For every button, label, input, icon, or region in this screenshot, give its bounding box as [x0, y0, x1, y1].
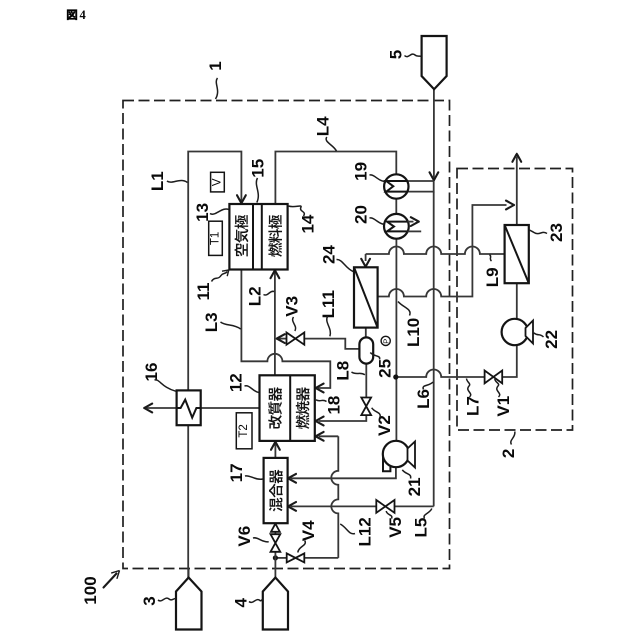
wire L8 (capsule 25 down through valve V2 into combustor): [316, 364, 367, 426]
air electrode 13 label text 空気極: [235, 243, 248, 256]
label L3: [202, 312, 241, 332]
pump/blower 21: [383, 441, 415, 472]
thermometer T1 box: [209, 221, 223, 255]
svg-text:100: 100: [81, 576, 100, 604]
svg-text:L7: L7: [464, 396, 483, 416]
label V6: [235, 526, 269, 547]
wire L5 (L6 corner through valve V5 into mixer): [288, 502, 434, 511]
svg-text:12: 12: [227, 373, 246, 392]
label L8: [334, 361, 365, 381]
svg-text:2: 2: [499, 449, 518, 458]
svg-text:L11: L11: [319, 290, 338, 318]
label 15: [248, 159, 267, 203]
wire tank3 riser crossing: [188, 569, 190, 578]
svg-text:L1: L1: [148, 171, 167, 191]
condenser 19: [384, 174, 408, 198]
title 図4: [67, 10, 77, 20]
junction node dot above tank 4: [273, 555, 278, 560]
heat exchanger 24: [354, 267, 378, 327]
svg-text:14: 14: [299, 214, 318, 233]
wire L12 (valve V4 bypass up into combustor) with hops (bulge left): [316, 432, 339, 558]
label 24: [320, 245, 354, 272]
junction node dot on L10: [393, 374, 398, 379]
wire between 19 and 20: [395, 199, 397, 214]
fuel cell 11 outer box: [229, 204, 287, 270]
svg-text:L10: L10: [404, 318, 423, 347]
label L6: [414, 382, 433, 409]
label L7: [464, 379, 483, 417]
svg-text:23: 23: [547, 223, 566, 242]
wire from water tank 5 down: [430, 89, 439, 180]
svg-text:L2: L2: [245, 286, 264, 306]
svg-text:V6: V6: [235, 526, 254, 547]
valve V2: [361, 398, 371, 416]
svg-text:24: 24: [320, 245, 339, 264]
svg-text:1: 1: [206, 61, 225, 70]
svg-text:16: 16: [142, 363, 161, 382]
thermometer T2 box: [236, 413, 252, 449]
label 5: [387, 50, 422, 59]
wire: combustor exhaust line y=254 (to heat exchanger 23) with hops: [361, 247, 504, 267]
mixer text 混合器: [269, 498, 282, 512]
water/fuel tank 4: [263, 578, 288, 630]
label 23: [530, 223, 567, 242]
wire L3 (cathode offgas to combustor): [241, 270, 330, 393]
valve V4: [287, 553, 305, 562]
label L1: [148, 171, 187, 191]
label L2: [245, 286, 274, 306]
mixer 17 box: [264, 458, 288, 523]
svg-text:V3: V3: [282, 296, 301, 317]
svg-text:V: V: [212, 178, 224, 186]
svg-text:4: 4: [231, 598, 250, 608]
svg-text:19: 19: [352, 162, 371, 181]
label 100 with arrow: [81, 571, 120, 605]
wire L6 (water down the right side into L5): [433, 192, 435, 507]
svg-text:L6: L6: [414, 389, 433, 409]
svg-text:T1: T1: [210, 232, 222, 245]
label 2: [499, 432, 518, 459]
svg-text:13: 13: [193, 203, 212, 222]
label L12: [340, 517, 374, 546]
wire HX16 exhaust out (left arrow): [144, 404, 259, 413]
wire tank4 to junction: [274, 558, 276, 578]
svg-text:V1: V1: [494, 396, 513, 417]
wire L7/V1 (junction dot to pump 22 via valve V1) with hop over L6: [396, 345, 517, 377]
label V1: [494, 379, 513, 417]
label 12: [227, 373, 259, 392]
label 25: [370, 353, 394, 378]
svg-text:15: 15: [248, 159, 267, 178]
label 11: [194, 270, 229, 300]
svg-text:V4: V4: [299, 520, 318, 541]
svg-text:L5: L5: [411, 518, 430, 538]
svg-text:L4: L4: [314, 116, 333, 136]
label 17: [227, 463, 263, 482]
valve V3: [287, 333, 305, 345]
svg-text:25: 25: [375, 359, 394, 378]
wire V3 branch (L2 tee to capsule via valve V3): [277, 334, 360, 349]
svg-text:21: 21: [405, 477, 424, 496]
svg-text:P: P: [382, 339, 391, 344]
svg-text:3: 3: [140, 596, 159, 605]
svg-text:18: 18: [324, 396, 343, 415]
wire L4 (anode offgas from cell top to condenser 19): [275, 152, 396, 205]
label 22: [534, 330, 561, 349]
label L5: [411, 509, 432, 538]
gas-liquid separator capsule (25 assembly): [359, 337, 373, 363]
reformer unit 12 box: [260, 375, 315, 441]
label 19: [352, 162, 385, 182]
label 20: [352, 205, 385, 224]
voltmeter V box: [211, 172, 225, 192]
wire V6 riser into mixer: [271, 524, 280, 558]
label V2: [372, 408, 394, 436]
label 14: [289, 206, 318, 234]
wire: exhaust riser through 23 up and out: [512, 154, 521, 225]
label V3: [282, 296, 301, 331]
svg-text:17: 17: [227, 463, 246, 482]
wire: condenser 19 bottom port to L6: [407, 181, 434, 192]
label 16: [142, 363, 176, 392]
valve V5: [376, 500, 394, 513]
label 1: [206, 61, 225, 99]
svg-text:T2: T2: [238, 424, 250, 437]
wire 24 bottom to capsule 25: [365, 328, 367, 338]
heat exchanger 16: [177, 390, 201, 425]
svg-text:L8: L8: [334, 361, 353, 381]
valve V6: [271, 534, 281, 552]
svg-text:L12: L12: [355, 517, 374, 546]
svg-text:L3: L3: [202, 312, 221, 332]
combustor 18 cell text 燃焼器: [296, 415, 310, 429]
dashed enclosure box 2 (hot water unit): [457, 169, 573, 431]
wire L1 (air supply: tank3 up through HX16, over and down into cathode): [188, 152, 246, 578]
wire: 23 bottom to pump 22: [516, 283, 518, 319]
svg-text:V2: V2: [375, 415, 394, 436]
wire L2 (reformate to anode): [271, 270, 280, 375]
label 13: [193, 203, 229, 222]
pump 22: [502, 319, 533, 345]
label 3: [140, 596, 176, 605]
label 18: [316, 396, 343, 415]
svg-text:V5: V5: [386, 517, 405, 538]
label V4: [298, 520, 318, 553]
svg-text:11: 11: [194, 283, 213, 301]
label 21: [402, 470, 424, 497]
wire pump 21 outlet into mixer: [288, 467, 396, 483]
reformer/combustor divider: [289, 375, 291, 441]
wire: condenser 19 top port to tank5 junction: [407, 180, 434, 182]
fuel electrode 14 label text 燃料極: [268, 243, 282, 257]
radiator 20 with outlet arrow: [384, 214, 421, 239]
electrolyte 15 divider lines: [252, 204, 254, 270]
dashed enclosure box 1 (fuel cell module): [123, 101, 450, 569]
arrow into riser above 23 (L9): [506, 201, 514, 210]
svg-text:5: 5: [387, 50, 406, 59]
wire mixer top into reformer 12: [271, 442, 280, 458]
label L9: [483, 255, 502, 288]
water tank 5: [422, 36, 447, 89]
svg-text:4: 4: [80, 8, 87, 22]
heat exchanger 23: [505, 225, 529, 283]
label V5: [386, 511, 405, 538]
label L10: [398, 302, 423, 348]
label L11: [319, 290, 338, 336]
raw fuel tank 3: [176, 578, 202, 630]
label 4: [231, 598, 262, 608]
svg-text:22: 22: [542, 330, 561, 349]
wire from junction dot through V4: [275, 557, 286, 559]
svg-text:L9: L9: [483, 267, 502, 287]
reformer cell text 改質器: [268, 415, 282, 428]
svg-text:20: 20: [352, 205, 371, 224]
wire L10 (blower 20 down to pump 21, junction dot): [395, 239, 397, 441]
label L4: [314, 116, 337, 151]
pressure gauge P circle: [381, 336, 390, 345]
wire: 24 right port to L9 riser y=296.5 with hops: [378, 205, 507, 297]
valve V1: [485, 371, 503, 384]
